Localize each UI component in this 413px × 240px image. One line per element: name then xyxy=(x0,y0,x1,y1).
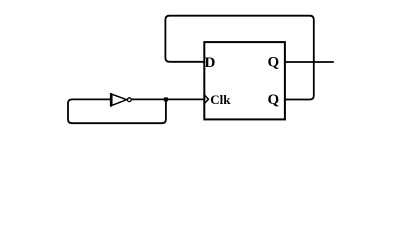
D flip-flop U1 body xyxy=(204,42,285,119)
wire: feedback net from Q-bar output up-over to D input (with D-input segment) xyxy=(165,16,313,100)
inverter U2 triangle xyxy=(112,94,127,105)
svg-text:Q: Q xyxy=(268,55,280,71)
svg-text:Clk: Clk xyxy=(210,92,231,107)
inverter U2 input bar xyxy=(110,93,112,107)
svg-text:D: D xyxy=(205,55,216,71)
clock input wedge xyxy=(204,95,208,104)
svg-text:Q: Q xyxy=(268,92,280,108)
wire: Q output stub to the right xyxy=(285,61,333,63)
wire: ring-oscillator feedback loop around inverter U2 xyxy=(68,99,166,123)
wire: inverter output to Clk input xyxy=(132,98,205,100)
junction: clock net junction dot xyxy=(164,97,168,101)
inverter U2 output bubble xyxy=(127,98,131,102)
